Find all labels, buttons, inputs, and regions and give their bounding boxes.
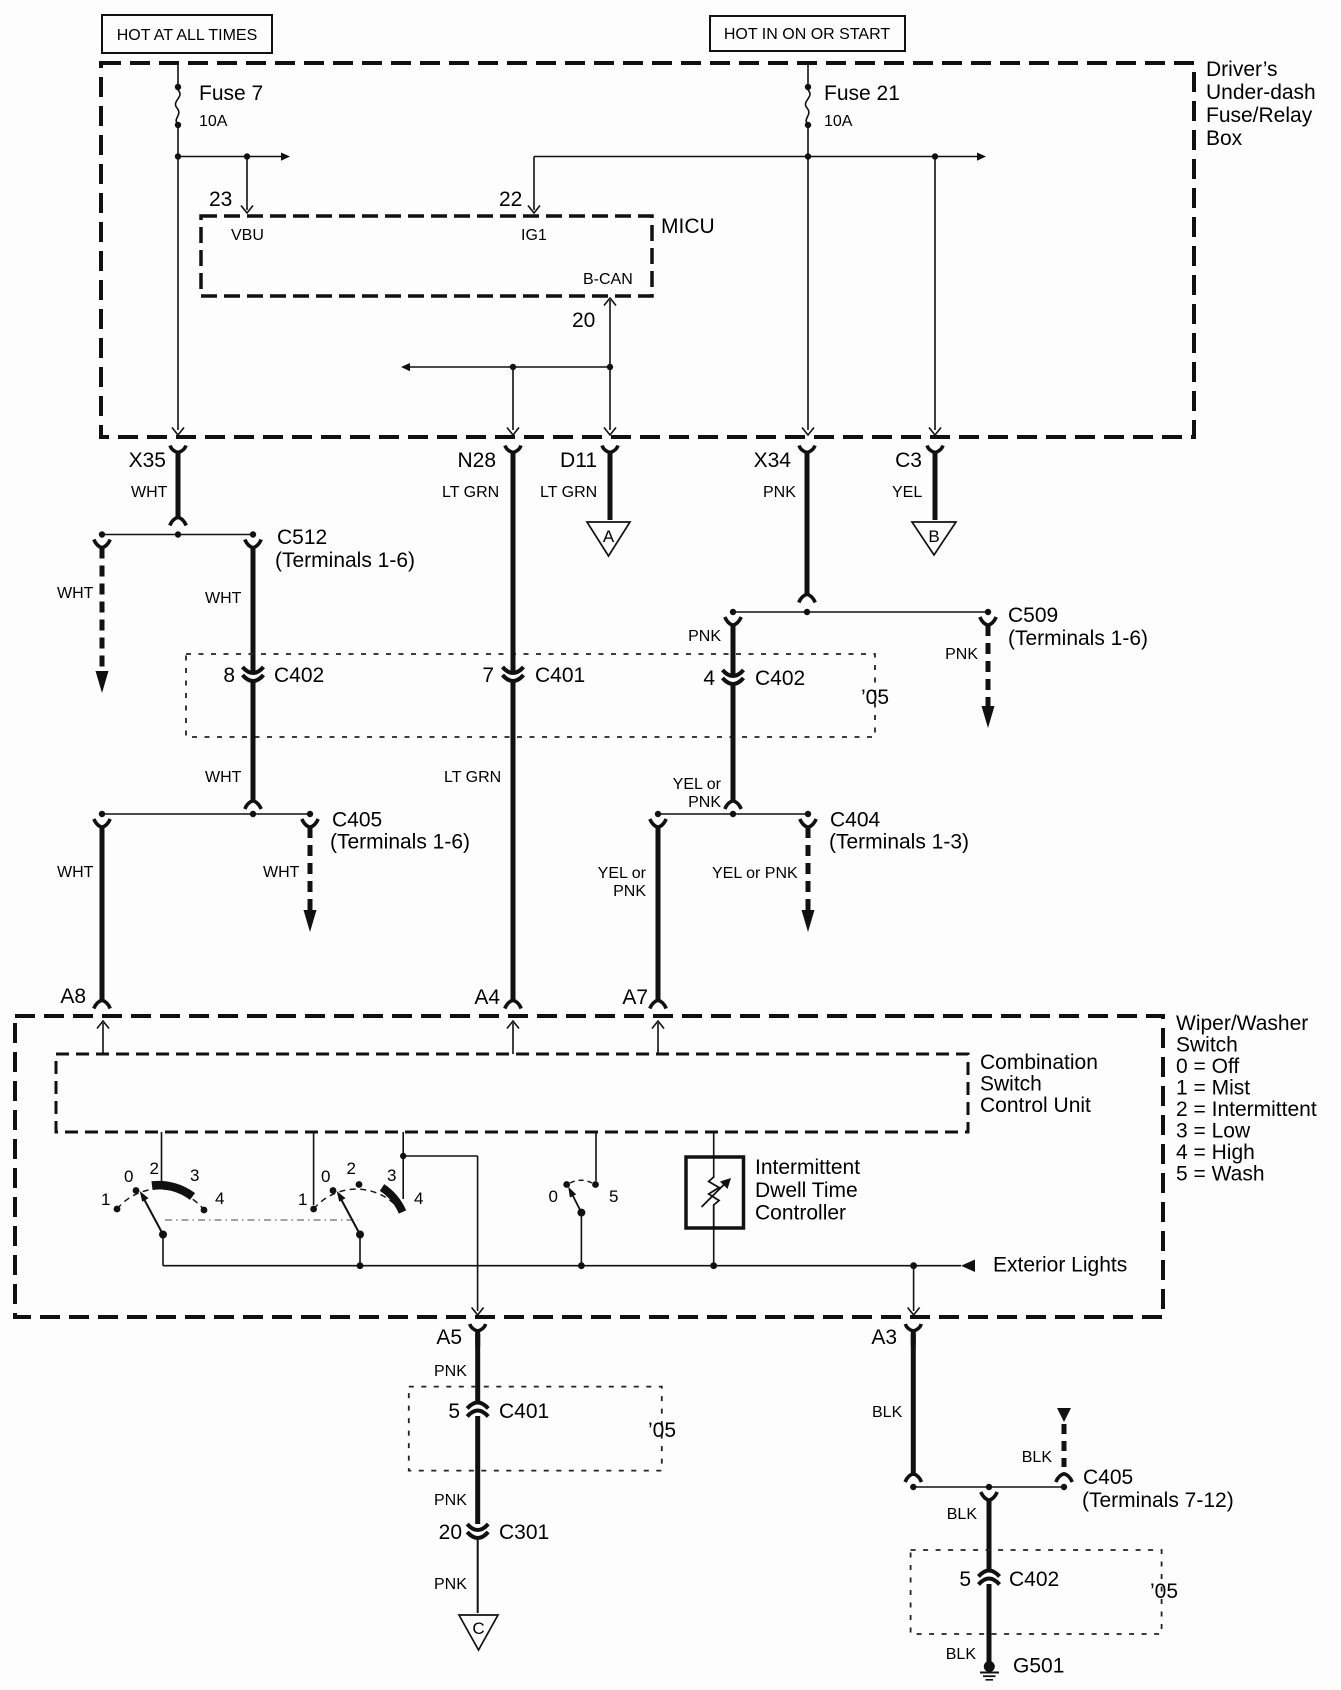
svg-text:5: 5 xyxy=(448,1400,460,1423)
wire fuse7 feed with branch arrow xyxy=(178,157,281,431)
'05 dashed box (A3) xyxy=(911,1550,1178,1634)
svg-text:0: 0 xyxy=(549,1187,558,1206)
wire YEL or PNK stub right xyxy=(712,819,816,932)
svg-text:WHT: WHT xyxy=(131,484,168,501)
svg-text:C404: C404 xyxy=(830,809,881,832)
svg-text:LT GRN: LT GRN xyxy=(442,484,499,501)
svg-text:(Terminals 7-12): (Terminals 7-12) xyxy=(1082,1489,1234,1512)
svg-text:X35: X35 xyxy=(129,449,166,472)
wire WHT to A8 xyxy=(57,819,110,1009)
svg-text:B: B xyxy=(928,527,939,546)
svg-text:X34: X34 xyxy=(754,449,792,472)
svg-text:C401: C401 xyxy=(535,664,585,687)
svg-text:’05: ’05 xyxy=(648,1419,676,1442)
svg-text:3: 3 xyxy=(387,1166,396,1185)
svg-text:1 = Mist: 1 = Mist xyxy=(1176,1077,1250,1100)
svg-text:PNK: PNK xyxy=(945,646,978,663)
svg-text:LT GRN: LT GRN xyxy=(540,484,597,501)
connector X34 xyxy=(754,446,815,473)
svg-text:PNK: PNK xyxy=(434,1363,467,1380)
svg-text:Control Unit: Control Unit xyxy=(980,1094,1091,1117)
wire PNK to C xyxy=(434,1539,478,1613)
wire LT GRN from N28 xyxy=(442,467,513,674)
svg-text:IG1: IG1 xyxy=(521,227,547,244)
connector X35 xyxy=(129,446,186,473)
svg-text:YEL or: YEL or xyxy=(673,776,722,793)
wire PNK to C301 xyxy=(434,1416,478,1524)
svg-text:BLK: BLK xyxy=(946,1646,977,1663)
svg-text:HOT IN ON OR START: HOT IN ON OR START xyxy=(724,26,890,43)
svg-text:(Terminals 1-3): (Terminals 1-3) xyxy=(829,831,969,854)
connector C402 pin 8 xyxy=(223,664,324,687)
svg-text:A8: A8 xyxy=(60,985,86,1008)
svg-text:C401: C401 xyxy=(499,1400,549,1423)
svg-text:BLK: BLK xyxy=(872,1404,903,1421)
svg-text:A3: A3 xyxy=(871,1326,897,1349)
svg-text:Fuse 7: Fuse 7 xyxy=(199,82,263,105)
wire WHT stub right xyxy=(263,819,318,932)
connector C301 pin 20 xyxy=(439,1521,550,1544)
svg-text:10A: 10A xyxy=(824,113,853,130)
svg-text:YEL or PNK: YEL or PNK xyxy=(712,865,798,882)
wire WHT from X35 xyxy=(131,467,186,526)
svg-text:5 = Wash: 5 = Wash xyxy=(1176,1163,1265,1186)
wire PNK from X34 xyxy=(763,467,815,603)
wire PNK to C402 xyxy=(688,617,741,677)
wire fuse21 feed with branch arrow xyxy=(808,157,977,431)
svg-text:WHT: WHT xyxy=(57,864,94,881)
svg-text:C509: C509 xyxy=(1008,604,1058,627)
wire LT GRN from D11 xyxy=(540,467,610,520)
svg-text:8: 8 xyxy=(223,664,235,687)
wire YEL from C3 xyxy=(892,467,935,520)
svg-text:MICU: MICU xyxy=(661,215,715,238)
node C (off-page triangle) xyxy=(459,1615,498,1650)
svg-text:22: 22 xyxy=(499,188,522,211)
connector C509 line xyxy=(730,604,1148,650)
svg-text:HOT AT ALL TIMES: HOT AT ALL TIMES xyxy=(117,27,258,44)
connector C401 pin 5 xyxy=(448,1400,549,1423)
svg-text:Fuse 21: Fuse 21 xyxy=(824,82,900,105)
svg-text:2 = Intermittent: 2 = Intermittent xyxy=(1176,1098,1317,1121)
svg-text:LT GRN: LT GRN xyxy=(444,769,501,786)
svg-text:0: 0 xyxy=(124,1167,133,1186)
svg-text:WHT: WHT xyxy=(205,769,242,786)
node pin 22 wire xyxy=(499,157,808,214)
svg-text:C405: C405 xyxy=(332,809,382,832)
svg-text:Driver’s: Driver’s xyxy=(1206,58,1278,81)
svg-text:’05: ’05 xyxy=(1150,1580,1178,1603)
svg-text:D11: D11 xyxy=(560,449,597,472)
svg-text:B-CAN: B-CAN xyxy=(583,271,633,288)
svg-text:3: 3 xyxy=(190,1166,199,1185)
connector C3 xyxy=(895,446,943,473)
svg-text:(Terminals 1-6): (Terminals 1-6) xyxy=(1008,627,1148,650)
wire BLK from A3 xyxy=(872,1334,922,1482)
connector C512 line xyxy=(99,526,415,572)
svg-text:Exterior Lights: Exterior Lights xyxy=(993,1254,1127,1277)
wire BLK stub from above xyxy=(1022,1408,1072,1482)
svg-text:Box: Box xyxy=(1206,127,1243,150)
connector C404 line xyxy=(655,809,969,854)
svg-text:G501: G501 xyxy=(1013,1655,1064,1678)
svg-text:4: 4 xyxy=(414,1189,423,1208)
svg-text:(Terminals 1-6): (Terminals 1-6) xyxy=(275,549,415,572)
svg-text:YEL or: YEL or xyxy=(598,865,647,882)
node pin 20 / B-CAN wire xyxy=(401,298,616,435)
svg-text:C: C xyxy=(472,1619,484,1638)
connector C402 pin 4 xyxy=(703,667,805,690)
svg-text:WHT: WHT xyxy=(263,864,300,881)
switch SW2 (wiper) xyxy=(298,1132,423,1266)
svg-text:PNK: PNK xyxy=(434,1492,467,1509)
wire YEL or PNK to A7 xyxy=(598,819,667,1009)
fuse F21 xyxy=(805,63,811,157)
connector C405 (7-12) line xyxy=(910,1466,1234,1512)
svg-text:C3: C3 xyxy=(895,449,922,472)
fuse F7 xyxy=(175,63,181,157)
combination switch control unit box xyxy=(56,1051,1098,1132)
wire BLK to G501 xyxy=(946,1584,989,1663)
svg-text:1: 1 xyxy=(101,1190,110,1209)
wire WHT to C402 xyxy=(205,540,261,675)
svg-text:Switch: Switch xyxy=(980,1073,1042,1096)
svg-text:A: A xyxy=(603,527,615,546)
connector N28 xyxy=(457,446,521,473)
svg-text:0 = Off: 0 = Off xyxy=(1176,1055,1239,1078)
svg-text:’05: ’05 xyxy=(861,686,889,709)
connector C402 pin 5 xyxy=(959,1568,1059,1591)
connector A5 xyxy=(436,1324,485,1349)
svg-text:A5: A5 xyxy=(436,1326,462,1349)
MICU box U1 xyxy=(201,215,715,296)
svg-text:3 = Low: 3 = Low xyxy=(1176,1120,1251,1143)
svg-text:PNK: PNK xyxy=(434,1576,467,1593)
connector C405 line xyxy=(99,809,470,854)
switch SW3 (washer) xyxy=(549,1132,619,1266)
svg-text:C402: C402 xyxy=(1009,1568,1059,1591)
svg-text:5: 5 xyxy=(959,1568,971,1591)
pin A8 entry xyxy=(60,985,109,1054)
pin A4 entry xyxy=(474,986,519,1054)
connector A3 xyxy=(871,1324,921,1349)
svg-text:C512: C512 xyxy=(277,526,327,549)
bus wire to exterior lights xyxy=(163,1254,1127,1277)
svg-text:VBU: VBU xyxy=(231,227,264,244)
svg-text:A7: A7 xyxy=(622,986,648,1009)
'05 dashed box (A5) xyxy=(409,1387,676,1471)
svg-text:Fuse/Relay: Fuse/Relay xyxy=(1206,104,1313,127)
svg-text:YEL: YEL xyxy=(892,484,922,501)
wire to A3 xyxy=(908,1266,920,1315)
wire PNK stub right xyxy=(945,617,996,728)
svg-text:4 = High: 4 = High xyxy=(1176,1141,1255,1164)
'05 dashed box (upper) xyxy=(186,654,889,737)
wire BLK to C402 xyxy=(947,1492,997,1570)
connector D11 xyxy=(560,446,618,473)
wire PNK from A5 xyxy=(434,1334,478,1402)
svg-text:Wiper/Washer: Wiper/Washer xyxy=(1176,1012,1308,1035)
svg-text:N28: N28 xyxy=(457,449,496,472)
node pin 23 xyxy=(209,157,253,214)
svg-text:Dwell Time: Dwell Time xyxy=(755,1179,858,1202)
svg-text:WHT: WHT xyxy=(57,585,94,602)
svg-text:2: 2 xyxy=(347,1159,356,1178)
svg-text:PNK: PNK xyxy=(763,484,796,501)
svg-text:23: 23 xyxy=(209,188,232,211)
svg-text:BLK: BLK xyxy=(1022,1449,1053,1466)
svg-text:PNK: PNK xyxy=(688,628,721,645)
svg-text:C405: C405 xyxy=(1083,1466,1133,1489)
svg-text:C301: C301 xyxy=(499,1521,549,1544)
svg-text:5: 5 xyxy=(609,1187,618,1206)
svg-text:10A: 10A xyxy=(199,113,228,130)
wiper/washer switch outer box xyxy=(15,1012,1317,1317)
svg-text:20: 20 xyxy=(572,309,595,332)
svg-text:4: 4 xyxy=(703,667,715,690)
svg-text:Switch: Switch xyxy=(1176,1034,1238,1057)
label box HOT IN ON OR START xyxy=(710,16,905,51)
svg-text:C402: C402 xyxy=(274,664,324,687)
svg-text:4: 4 xyxy=(215,1189,224,1208)
connector C401 pin 7 xyxy=(482,664,585,687)
intermittent dwell time controller xyxy=(686,1133,860,1265)
svg-text:Under-dash: Under-dash xyxy=(1206,81,1316,104)
svg-text:WHT: WHT xyxy=(205,590,242,607)
mechanical link xyxy=(165,1219,358,1221)
label box HOT AT ALL TIMES xyxy=(102,15,272,53)
svg-text:A4: A4 xyxy=(474,986,500,1009)
ground G501 xyxy=(980,1655,1064,1680)
node A (off-page triangle) xyxy=(587,522,630,556)
wire LT GRN to A4 xyxy=(444,682,521,1009)
wire to A5 elbow xyxy=(400,1153,484,1315)
wire WHT to C405 xyxy=(205,682,261,809)
wire YEL or PNK to C404 xyxy=(673,685,742,811)
pin A7 entry xyxy=(622,986,664,1054)
svg-text:BLK: BLK xyxy=(947,1506,978,1523)
svg-text:20: 20 xyxy=(439,1521,462,1544)
node B (off-page triangle) xyxy=(912,522,956,555)
wire WHT stub left xyxy=(57,540,110,694)
svg-text:Intermittent: Intermittent xyxy=(755,1156,860,1179)
svg-text:C402: C402 xyxy=(755,667,805,690)
svg-text:Combination: Combination xyxy=(980,1051,1098,1074)
svg-text:PNK: PNK xyxy=(613,883,646,900)
svg-text:7: 7 xyxy=(482,664,494,687)
svg-text:2: 2 xyxy=(150,1159,159,1178)
switch SW1 (wiper) xyxy=(101,1132,224,1266)
driver's under-dash fuse/relay box xyxy=(101,58,1316,437)
svg-text:PNK: PNK xyxy=(688,794,721,811)
svg-text:0: 0 xyxy=(321,1167,330,1186)
svg-text:(Terminals 1-6): (Terminals 1-6) xyxy=(330,831,470,854)
svg-text:1: 1 xyxy=(298,1190,307,1209)
svg-text:Controller: Controller xyxy=(755,1202,846,1225)
